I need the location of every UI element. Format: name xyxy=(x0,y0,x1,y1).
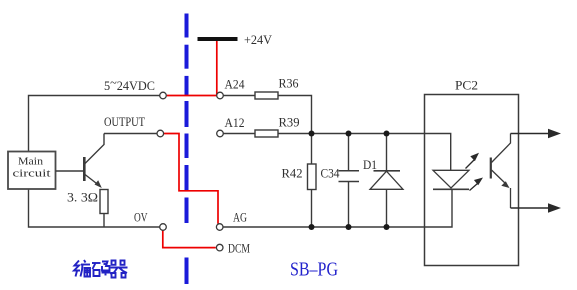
+24V supply bar xyxy=(198,37,238,41)
resistor R 3.3ohm xyxy=(100,190,108,214)
phototransistor inside PC2 xyxy=(490,158,492,179)
transistor Q1 xyxy=(84,134,104,189)
wire: A24 to R36 xyxy=(223,95,255,97)
output arrow bottom xyxy=(511,207,552,209)
resistor R36 xyxy=(255,92,278,99)
svg-text:5~24VDC: 5~24VDC xyxy=(104,75,155,94)
wire: resistor to OV rail xyxy=(103,214,105,228)
char qi xyxy=(112,261,116,265)
svg-text:OUTPUT: OUTPUT xyxy=(104,114,145,129)
char ma xyxy=(92,262,101,264)
optocoupler PC2 box xyxy=(425,95,519,266)
terminal 5~24VDC xyxy=(160,92,167,99)
LED inside PC2 xyxy=(433,170,469,188)
title bian-ma-qi (encoder) drawn glyphs xyxy=(74,260,128,278)
terminal OUTPUT xyxy=(157,130,164,137)
svg-text:PC2: PC2 xyxy=(455,78,478,93)
char bian xyxy=(74,261,80,271)
wire red: +24V to A24 node xyxy=(167,41,217,96)
wire red: OV to DCM xyxy=(163,231,216,248)
wire: top rail to LED anode xyxy=(278,134,451,171)
Main circuit box U1 xyxy=(8,152,56,190)
wire: Main circuit bottom to OV rail xyxy=(29,189,160,227)
junction node dots xyxy=(309,131,315,137)
svg-text:Main: Main xyxy=(18,156,44,168)
wire: left vertical from 5~24VDC down to Main circuit xyxy=(29,96,160,152)
terminal DCM xyxy=(216,244,223,251)
svg-text:R39: R39 xyxy=(279,115,300,130)
svg-text:R42: R42 xyxy=(282,166,303,181)
svg-text:3. 3Ω: 3. 3Ω xyxy=(67,190,98,205)
capacitor C34 xyxy=(348,134,350,171)
svg-text:OV: OV xyxy=(134,210,148,225)
wire: base wire from Main circuit to transistor xyxy=(56,170,84,172)
resistor R42 xyxy=(311,134,313,165)
terminal A24 xyxy=(217,92,224,99)
svg-text:A12: A12 xyxy=(225,115,245,130)
svg-text:SB–PG: SB–PG xyxy=(290,259,338,281)
wire: A12 to R39 xyxy=(223,133,255,135)
svg-text:AG: AG xyxy=(233,210,247,225)
LED light arrow 1 xyxy=(466,160,475,169)
resistor R39 xyxy=(255,130,278,137)
svg-text:A24: A24 xyxy=(225,77,245,92)
diode D1 xyxy=(386,134,388,171)
svg-text:+24V: +24V xyxy=(244,32,273,47)
svg-text:DCM: DCM xyxy=(228,241,250,256)
svg-text:R36: R36 xyxy=(279,76,299,91)
svg-text:C34: C34 xyxy=(321,166,340,181)
wire: OUTPUT line xyxy=(104,133,157,135)
wire red: OUTPUT to AG jog xyxy=(164,134,218,224)
terminal OV xyxy=(160,224,167,231)
output arrow top xyxy=(511,133,552,135)
wire: R36 down to A12 rail xyxy=(278,96,312,134)
terminal A12 xyxy=(217,130,224,137)
dashed boundary line xyxy=(185,14,189,38)
svg-text:circuit: circuit xyxy=(13,168,51,180)
terminal AG xyxy=(216,224,223,231)
wire: bottom rail AG to LED cathode xyxy=(223,190,452,228)
LED light arrow 2 xyxy=(470,184,478,191)
svg-text:D1: D1 xyxy=(363,157,377,172)
